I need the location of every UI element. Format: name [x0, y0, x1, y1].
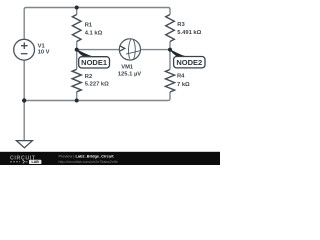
resistor R3	[166, 15, 175, 42]
svg-text:10 V: 10 V	[38, 49, 50, 55]
node NODE2 flag pointer	[170, 49, 187, 57]
node NODE1	[79, 57, 110, 68]
svg-text:Preview | Lab2_Bridge_Circuit: Preview | Lab2_Bridge_Circuit	[59, 153, 115, 158]
svg-text:7 kΩ: 7 kΩ	[177, 82, 190, 88]
svg-text:5.491 kΩ: 5.491 kΩ	[177, 30, 201, 36]
svg-text:VM1: VM1	[121, 65, 134, 71]
wire bottom rail	[24, 92, 170, 101]
wire R3 branch stubs	[169, 42, 171, 70]
wire top rail	[24, 8, 170, 40]
svg-text:R2: R2	[85, 74, 92, 80]
svg-text:125.1 µV: 125.1 µV	[118, 71, 141, 77]
node NODE1 flag pointer	[76, 49, 93, 57]
resistor R2	[72, 69, 81, 92]
wire meter to node B	[141, 49, 171, 51]
node B junction	[168, 48, 172, 52]
svg-text:LAB: LAB	[32, 160, 40, 164]
footer logo bolt	[23, 160, 25, 164]
footer logo LAB chip	[29, 160, 41, 164]
wire R1 branch stubs	[76, 8, 78, 101]
junction top rail / R1	[75, 6, 79, 10]
svg-text:4.1 kΩ: 4.1 kΩ	[85, 30, 103, 36]
svg-text:R1: R1	[85, 23, 93, 29]
voltmeter VM1	[119, 39, 141, 60]
svg-text:NODE1: NODE1	[81, 58, 107, 67]
wire left vertical to ground	[23, 60, 25, 141]
junction bottom rail / left wire	[22, 98, 26, 102]
svg-text:5.227 kΩ: 5.227 kΩ	[85, 82, 109, 88]
footer bar	[0, 152, 220, 165]
svg-text:NODE2: NODE2	[176, 58, 202, 67]
node A junction	[75, 48, 79, 52]
voltage source V1	[14, 39, 35, 60]
svg-text:R3: R3	[177, 22, 185, 28]
junction bottom rail / R2	[75, 99, 79, 103]
ground	[16, 141, 32, 148]
node NODE2	[174, 57, 205, 68]
svg-text:R4: R4	[177, 74, 185, 80]
wire node A to meter	[77, 49, 120, 51]
resistor R1	[72, 15, 81, 42]
footer logo dashes	[10, 161, 28, 163]
resistor R4	[165, 70, 174, 93]
svg-text:http://circuitlab.com/c/e2e75a: http://circuitlab.com/c/e2e75abw2v9b	[59, 160, 118, 164]
